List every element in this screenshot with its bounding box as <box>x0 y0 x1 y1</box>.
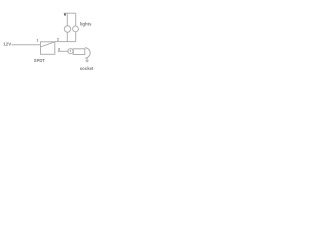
lamp L2 <box>73 26 79 32</box>
switch lever <box>41 42 55 47</box>
wire lamp L1 top <box>66 13 68 26</box>
socket body <box>73 49 85 55</box>
svg-text:1: 1 <box>36 38 39 43</box>
switch S1 SPDT body <box>41 42 55 55</box>
svg-text:2: 2 <box>57 36 60 41</box>
svg-text:socket: socket <box>80 66 94 71</box>
wire lamp L1 bottom <box>66 32 68 42</box>
wire from 12V to switch pin 1 <box>12 44 41 46</box>
leader arrowhead <box>85 60 89 62</box>
socket end cap arc <box>85 48 90 58</box>
svg-text:SPDT: SPDT <box>34 58 46 63</box>
wire pin2 to lamps bus <box>55 41 76 43</box>
wire lamp L2 top <box>75 13 77 26</box>
lamp L1 <box>64 26 70 32</box>
svg-text:3: 3 <box>58 46 61 51</box>
junction dot <box>64 14 66 16</box>
wire pin3 to socket <box>58 50 68 52</box>
svg-text:12V: 12V <box>3 41 11 46</box>
wire lamp L2 bottom <box>75 32 77 42</box>
socket J1 plug tip <box>68 49 73 54</box>
wire top bus <box>64 12 76 14</box>
svg-text:lights: lights <box>80 21 92 26</box>
leader arrow line <box>86 57 88 60</box>
socket tip dot <box>70 50 71 51</box>
